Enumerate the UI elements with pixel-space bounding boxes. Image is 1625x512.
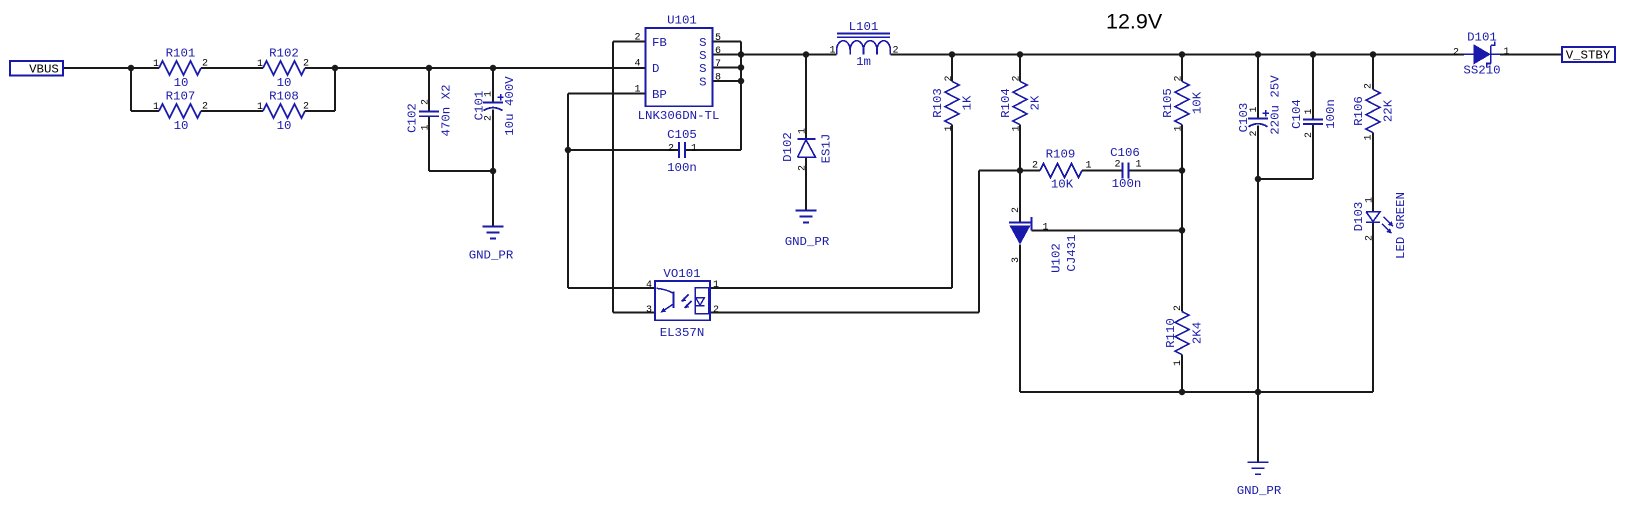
svg-text:1: 1	[829, 46, 835, 57]
svg-text:R106: R106	[1352, 96, 1366, 126]
svg-text:2: 2	[892, 46, 898, 57]
svg-text:D102: D102	[781, 132, 795, 162]
svg-text:R108: R108	[269, 89, 299, 103]
svg-text:10: 10	[277, 76, 292, 90]
svg-text:GND_PR: GND_PR	[469, 248, 514, 262]
svg-text:100n: 100n	[667, 161, 697, 175]
svg-text:R102: R102	[269, 46, 299, 60]
svg-text:C102: C102	[405, 103, 419, 133]
svg-text:2: 2	[797, 165, 808, 171]
svg-text:S: S	[699, 75, 706, 89]
svg-text:U101: U101	[667, 13, 697, 27]
svg-text:LNK306DN-TL: LNK306DN-TL	[638, 109, 720, 123]
svg-text:100n: 100n	[1324, 99, 1338, 129]
svg-text:220u 25V: 220u 25V	[1268, 75, 1282, 135]
svg-text:1: 1	[1503, 47, 1509, 58]
svg-text:1: 1	[1085, 160, 1091, 171]
svg-text:1: 1	[153, 59, 159, 70]
svg-text:V_STBY: V_STBY	[1566, 49, 1611, 63]
svg-text:C104: C104	[1290, 99, 1304, 129]
svg-text:R110: R110	[1164, 318, 1178, 348]
svg-text:1: 1	[944, 125, 955, 131]
svg-text:1: 1	[257, 59, 263, 70]
svg-text:2: 2	[634, 32, 640, 43]
svg-text:3: 3	[646, 305, 652, 316]
svg-text:7: 7	[715, 59, 721, 70]
svg-text:2: 2	[1114, 159, 1120, 170]
svg-text:C106: C106	[1110, 146, 1140, 160]
svg-text:6: 6	[715, 46, 721, 57]
svg-text:1: 1	[257, 102, 263, 113]
svg-text:1: 1	[153, 102, 159, 113]
svg-text:VO101: VO101	[663, 267, 700, 281]
svg-text:2: 2	[420, 99, 431, 105]
svg-text:FB: FB	[652, 36, 667, 50]
svg-text:2: 2	[1304, 132, 1315, 138]
svg-text:10: 10	[174, 119, 189, 133]
svg-text:2: 2	[668, 143, 674, 154]
svg-text:U102: U102	[1049, 243, 1063, 273]
svg-text:2: 2	[202, 58, 208, 69]
svg-text:2: 2	[1363, 83, 1374, 89]
svg-text:1: 1	[1173, 125, 1184, 131]
svg-text:2: 2	[202, 101, 208, 112]
svg-text:S: S	[699, 49, 706, 63]
svg-text:10: 10	[174, 76, 189, 90]
svg-text:2: 2	[1011, 207, 1022, 213]
svg-text:10u 400V: 10u 400V	[503, 76, 517, 136]
svg-text:4: 4	[634, 58, 640, 69]
svg-text:1: 1	[1364, 197, 1375, 203]
svg-text:SS210: SS210	[1463, 63, 1500, 77]
svg-text:1K: 1K	[961, 95, 975, 110]
svg-text:L101: L101	[849, 20, 879, 34]
svg-text:1: 1	[1173, 360, 1184, 366]
svg-text:1: 1	[1363, 134, 1374, 140]
svg-text:2: 2	[713, 305, 719, 316]
svg-text:R109: R109	[1046, 147, 1076, 161]
svg-text:D101: D101	[1467, 30, 1497, 44]
svg-text:R104: R104	[999, 88, 1013, 118]
svg-text:VBUS: VBUS	[29, 63, 59, 77]
svg-text:470n X2: 470n X2	[439, 84, 453, 136]
svg-text:2: 2	[1011, 75, 1022, 81]
svg-text:3: 3	[1011, 257, 1022, 263]
svg-text:R101: R101	[166, 46, 196, 60]
svg-text:1: 1	[1135, 159, 1141, 170]
svg-text:8: 8	[715, 72, 721, 83]
svg-text:2: 2	[1173, 75, 1184, 81]
svg-text:2: 2	[303, 101, 309, 112]
svg-text:100n: 100n	[1112, 177, 1142, 191]
svg-text:C105: C105	[667, 128, 697, 142]
svg-text:2: 2	[303, 58, 309, 69]
svg-text:EL357N: EL357N	[660, 326, 705, 340]
svg-text:D103: D103	[1352, 202, 1366, 232]
svg-text:1: 1	[691, 143, 697, 154]
svg-text:2: 2	[1453, 47, 1459, 58]
svg-text:CJ431: CJ431	[1065, 234, 1079, 271]
svg-text:BP: BP	[652, 88, 667, 102]
svg-text:S: S	[699, 36, 706, 50]
svg-text:4: 4	[646, 280, 652, 291]
svg-text:1: 1	[1011, 125, 1022, 131]
svg-text:2: 2	[944, 75, 955, 81]
svg-text:2K4: 2K4	[1191, 322, 1205, 344]
svg-text:1: 1	[420, 124, 431, 130]
svg-text:2: 2	[1032, 160, 1038, 171]
svg-text:2: 2	[1249, 130, 1260, 136]
svg-text:1: 1	[634, 84, 640, 95]
svg-text:1: 1	[1042, 222, 1048, 233]
svg-text:12.9V: 12.9V	[1106, 10, 1163, 34]
svg-text:10K: 10K	[1051, 177, 1074, 191]
svg-text:D: D	[652, 62, 659, 76]
svg-text:R103: R103	[931, 88, 945, 118]
svg-text:10: 10	[277, 119, 292, 133]
svg-text:2: 2	[1173, 305, 1184, 311]
svg-text:1: 1	[483, 91, 494, 97]
svg-text:GND_PR: GND_PR	[1237, 484, 1282, 498]
svg-text:1: 1	[797, 128, 808, 134]
svg-text:1: 1	[1304, 108, 1315, 114]
svg-text:2K: 2K	[1029, 95, 1043, 110]
svg-text:5: 5	[715, 33, 721, 44]
svg-text:10K: 10K	[1191, 91, 1205, 114]
svg-text:1: 1	[1249, 106, 1260, 112]
svg-text:2: 2	[483, 115, 494, 121]
svg-text:GND_PR: GND_PR	[785, 235, 830, 249]
svg-text:R105: R105	[1161, 88, 1175, 118]
svg-text:LED GREEN: LED GREEN	[1394, 192, 1408, 259]
svg-text:22K: 22K	[1382, 99, 1396, 122]
svg-text:2: 2	[1364, 235, 1375, 241]
svg-text:ES1J: ES1J	[819, 134, 833, 164]
svg-text:1: 1	[713, 280, 719, 291]
svg-text:1m: 1m	[856, 55, 871, 69]
svg-text:S: S	[699, 62, 706, 76]
svg-text:R107: R107	[166, 89, 196, 103]
